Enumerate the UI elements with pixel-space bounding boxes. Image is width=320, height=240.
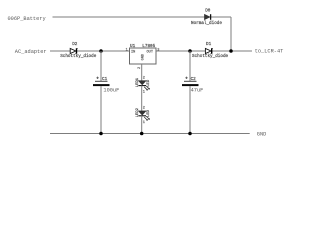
diode D1 (schottky) symbol (205, 48, 212, 53)
C2 top plate (184, 80, 197, 82)
junction node LED/gnd (140, 132, 144, 136)
C1 plus sign (96, 77, 98, 79)
wire AC_adapter to D2 anode (50, 50, 70, 52)
svg-text:OUT: OUT (147, 50, 154, 54)
svg-text:100uF: 100uF (103, 88, 119, 94)
svg-text:Normal_diode: Normal_diode (191, 21, 222, 26)
regulator U1 L7805 box (130, 48, 157, 64)
svg-text:IN: IN (131, 50, 135, 54)
wire LED2 to gnd (141, 116, 143, 134)
wire C2 bottom to gnd (189, 86, 191, 133)
svg-text:U1: U1 (130, 44, 136, 49)
C1 bottom plate thick (93, 84, 110, 86)
wire D2 cathode to U1 pin1 (77, 50, 130, 52)
svg-text:C1: C1 (102, 77, 108, 82)
svg-text:2: 2 (143, 76, 145, 80)
capacitor C1 (93, 51, 119, 134)
wire U1 pin3 to output (156, 50, 206, 52)
junction node riser/main (229, 49, 233, 53)
svg-text:3: 3 (157, 49, 159, 53)
svg-text:D1: D1 (206, 42, 212, 47)
LED2 triangle (138, 111, 146, 115)
svg-text:to_LCR-4T: to_LCR-4T (255, 49, 284, 55)
C2 bottom plate thick (182, 84, 199, 86)
diode D2 (schottky) symbol (70, 48, 77, 53)
svg-text:Schottky_diode: Schottky_diode (60, 54, 97, 59)
wire right riser vertical (230, 17, 232, 51)
wire ground bus (50, 133, 250, 135)
LED1 triangle (138, 81, 146, 85)
svg-text:1: 1 (143, 91, 145, 95)
LED2 emission arrows (144, 116, 149, 120)
svg-text:D2: D2 (72, 42, 78, 47)
LED1 emission arrows (144, 86, 149, 90)
svg-text:47uF: 47uF (191, 88, 204, 94)
svg-text:D0: D0 (205, 9, 211, 14)
svg-text:1: 1 (126, 49, 128, 53)
wire main to C1 top (100, 51, 102, 81)
LED2 cathode bar (138, 115, 146, 117)
LED1 cathode bar (138, 85, 146, 87)
svg-text:LED2: LED2 (136, 107, 140, 117)
junction node C1/main (99, 49, 103, 53)
svg-text:GND: GND (141, 54, 145, 60)
LED1 (136, 76, 151, 110)
junction node C2/main (188, 49, 192, 53)
svg-text:2: 2 (143, 107, 145, 111)
svg-text:C2: C2 (191, 77, 197, 82)
svg-text:Schottky_diode: Schottky_diode (192, 54, 229, 59)
C2 plus sign (185, 77, 187, 79)
C1 top plate (95, 80, 108, 82)
junction node C1/gnd (99, 132, 103, 136)
junction node C2/gnd (188, 132, 192, 136)
svg-text:1: 1 (143, 121, 145, 125)
svg-text:L7805: L7805 (142, 44, 155, 49)
svg-text:006P_Battery: 006P_Battery (8, 16, 46, 22)
capacitor C2 (182, 51, 203, 134)
wire U1 pin2 down to LED1 (141, 64, 143, 81)
svg-text:LED: LED (147, 79, 151, 87)
wire top battery horizontal (53, 16, 232, 18)
svg-text:GND: GND (257, 132, 267, 138)
wire LED1 to LED2 (141, 86, 143, 111)
diode D0 (normal) symbol (205, 14, 211, 20)
svg-text:LED1: LED1 (136, 77, 140, 87)
wire main to C2 top (189, 51, 191, 81)
wire C1 bottom to gnd (100, 86, 102, 133)
svg-text:AC_adapter: AC_adapter (15, 49, 47, 55)
svg-text:LED: LED (147, 109, 151, 117)
LED2 (136, 107, 151, 134)
wire D1 cathode to to_LCR-4T (212, 50, 252, 52)
